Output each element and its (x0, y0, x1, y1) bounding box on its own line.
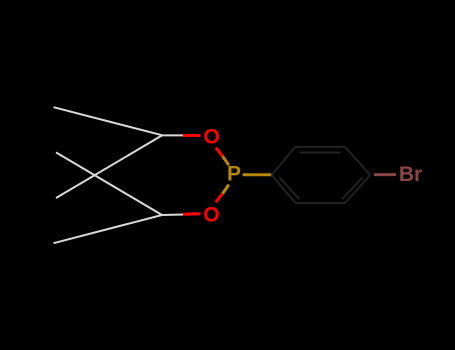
benzene ring top edge (dark) (295, 146, 345, 148)
benzene double bond inner line bottom-right diagonal (342, 178, 363, 200)
benzene double bond inner line bottom-left diagonal (280, 178, 300, 200)
wire: C-O bond bottom oxygen half (red) (183, 212, 201, 216)
wire: O2-P bond phosphorus half (olive) (223, 185, 229, 194)
wire: O2-P bond oxygen half (red) (216, 194, 223, 203)
benzene double bond inner line top edge (300, 152, 340, 154)
wire: C-O bond top carbon half (162, 134, 184, 136)
benzene ring bottom edge (dark) (295, 202, 345, 204)
svg-text:P: P (227, 163, 241, 186)
benzene ring edge ipso to top-left (dark) (272, 147, 296, 175)
svg-text:O: O (204, 126, 220, 149)
wire: O1-P bond phosphorus half (olive) (223, 156, 229, 165)
wire: C-O bond bottom carbon half (162, 214, 184, 217)
svg-text:Br: Br (399, 163, 422, 186)
wire: O1-P bond oxygen half (red) (216, 148, 223, 157)
wire: C-Br bond (dark red) (374, 173, 396, 176)
wire: P-C(ipso) bond (olive) (243, 173, 272, 176)
svg-text:O: O (203, 203, 219, 226)
wire: chain bond C1-C2-C3 top (white diagonal) (56, 135, 162, 198)
benzene ring edge para to bottom-right (dark) (345, 175, 370, 203)
wire: chain bond C1-C2-C3 bottom (white diagonal) (56, 152, 162, 215)
wire: C-O bond top oxygen half (red) (183, 134, 201, 137)
wire: methyl branch top-left (54, 107, 163, 135)
benzene ring edge bottom-left to ipso (dark) (272, 175, 296, 203)
wire: methyl branch bottom-left (54, 215, 163, 243)
benzene ring edge top-right to para (dark) (345, 147, 370, 175)
